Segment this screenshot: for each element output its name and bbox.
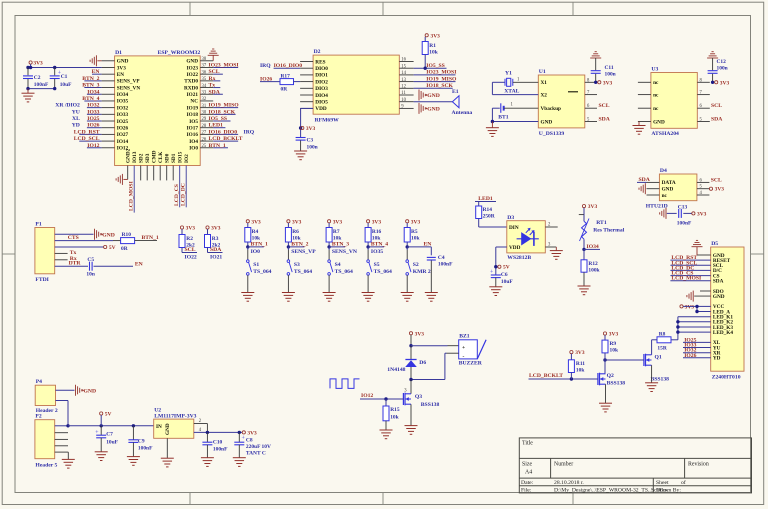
resistor R7 10k — [326, 228, 342, 249]
svg-text:38: 38 — [202, 57, 207, 62]
svg-text:IO35: IO35 — [371, 249, 383, 255]
svg-text:33: 33 — [202, 90, 207, 95]
svg-text:100nF: 100nF — [34, 82, 49, 88]
svg-text:LCD_SCL: LCD_SCL — [74, 136, 100, 142]
ground bar at D1 GND pin 1 — [90, 55, 102, 66]
svg-text:3V3: 3V3 — [306, 126, 316, 132]
svg-text:28: 28 — [202, 124, 207, 129]
resistor R11 10k — [568, 360, 585, 379]
resistor R15 10k — [383, 399, 400, 430]
power port 3V3 above R3 — [206, 226, 221, 235]
svg-text:E1: E1 — [452, 89, 459, 95]
svg-text:0R: 0R — [281, 87, 288, 93]
power port 3V3 at D4 pin 5 — [709, 187, 724, 193]
resistor R5 10k — [404, 228, 420, 249]
capacitor C3 100n — [296, 138, 318, 151]
svg-text:XL: XL — [72, 116, 80, 122]
ground below S3 — [282, 275, 295, 301]
svg-text:TS_064: TS_064 — [335, 269, 353, 275]
wire D3 VDD to 5V — [494, 247, 507, 275]
net label BTN_1 IO0 — [248, 242, 268, 255]
svg-text:Header 5: Header 5 — [35, 462, 57, 468]
svg-text:SCL: SCL — [599, 103, 610, 109]
svg-text:GND: GND — [541, 119, 553, 125]
svg-text:100n: 100n — [605, 72, 616, 78]
svg-text:C6: C6 — [501, 272, 508, 278]
capacitor C9 100nF — [128, 426, 153, 457]
svg-text:3V3: 3V3 — [333, 219, 343, 225]
svg-text:TS_064: TS_064 — [294, 269, 312, 275]
svg-text:IO14: IO14 — [117, 139, 129, 145]
svg-text:ATSHA204: ATSHA204 — [651, 131, 679, 137]
ground bar at D5 GND pin8 — [687, 291, 711, 302]
svg-text:IO19_MISO: IO19_MISO — [426, 76, 457, 82]
svg-text:SENS_VP: SENS_VP — [291, 249, 316, 255]
svg-text:RT1: RT1 — [596, 220, 607, 226]
ground below C3 — [294, 151, 307, 160]
svg-text:DTR: DTR — [69, 261, 82, 267]
svg-text:IO23_MOSI: IO23_MOSI — [426, 70, 456, 76]
resistor R10 0R — [121, 232, 157, 252]
ground bar at D2 pin 9 — [419, 103, 440, 114]
svg-text:VDD: VDD — [315, 106, 327, 112]
svg-text:U_DS1339: U_DS1339 — [539, 131, 565, 137]
D1 left pins — [102, 59, 141, 152]
5V rail wire — [68, 424, 154, 427]
power port 3V3 above R4 — [246, 219, 261, 227]
svg-text:ESP_WROOM32: ESP_WROOM32 — [158, 50, 201, 56]
svg-text:11: 11 — [401, 91, 406, 96]
svg-text:GND: GND — [427, 106, 440, 112]
svg-text:IO16_DIO0: IO16_DIO0 — [274, 63, 303, 69]
LED arrow symbol inside D3 — [517, 228, 539, 246]
svg-text:IO5_SS: IO5_SS — [209, 116, 228, 122]
svg-text:S4: S4 — [335, 262, 341, 268]
svg-text:3V3: 3V3 — [411, 219, 421, 225]
svg-text:SCL: SCL — [711, 103, 722, 109]
svg-text:3V3: 3V3 — [33, 61, 43, 67]
svg-text:SDA: SDA — [639, 177, 651, 183]
svg-text:SCL: SCL — [711, 177, 722, 183]
svg-text:EN: EN — [92, 69, 100, 75]
wire capacitor bottoms — [26, 87, 56, 90]
svg-text:BTN_4: BTN_4 — [371, 242, 388, 248]
IC U1 U_DS1339 body — [538, 69, 585, 137]
svg-text:5V: 5V — [105, 412, 112, 418]
svg-text:LCD_CS: LCD_CS — [174, 184, 180, 206]
power port 3V3 at U1 pin 8 — [594, 80, 613, 86]
net label LCD_BCKLT wire to Q2 gate — [529, 373, 598, 381]
svg-text:A4: A4 — [525, 470, 532, 476]
svg-text:SENS_VN: SENS_VN — [117, 85, 141, 91]
svg-text:220uF 10V: 220uF 10V — [246, 444, 271, 450]
svg-text:IO22: IO22 — [187, 72, 199, 78]
svg-text:S1: S1 — [253, 262, 259, 268]
svg-text:GND: GND — [653, 119, 665, 125]
power port 3V3 above R2 — [180, 226, 195, 235]
svg-text:DIO3: DIO3 — [315, 86, 328, 92]
power port 3V3 at D2 VDD — [301, 126, 316, 132]
svg-text:SENS_VP: SENS_VP — [117, 79, 141, 85]
svg-text:GND: GND — [84, 389, 97, 395]
svg-text:10n: 10n — [86, 271, 94, 277]
svg-text:R10: R10 — [122, 232, 132, 238]
net labels on D1 right pins — [209, 62, 255, 148]
wire P2 pin1 to 5V rail — [55, 424, 70, 427]
ground below S2 — [401, 275, 414, 301]
svg-text:Vbackup: Vbackup — [541, 106, 562, 112]
svg-text:CLK: CLK — [158, 151, 164, 163]
transistor Q2 BSS138 — [594, 373, 625, 387]
ground below C10 — [201, 458, 214, 467]
svg-text:NC: NC — [190, 99, 198, 105]
ground below S4 — [323, 275, 336, 301]
net label BTN_4 IO35 — [368, 242, 388, 255]
capacitor C8 220uF 10V TANT C polarized — [234, 432, 271, 457]
svg-text:LCD_MOSI: LCD_MOSI — [129, 181, 135, 211]
svg-text:P2: P2 — [35, 414, 41, 420]
net label IRQ IO16_DIO0 on D2 DIO0 — [260, 63, 302, 69]
svg-text:R15: R15 — [390, 407, 400, 413]
svg-text:BTN_1: BTN_1 — [209, 143, 226, 149]
svg-text:Title: Title — [522, 441, 533, 447]
svg-text:Tx: Tx — [70, 250, 77, 256]
ground below Q3 — [405, 404, 418, 434]
svg-text:XR /DIO2: XR /DIO2 — [55, 103, 80, 109]
svg-text:IO17: IO17 — [187, 126, 199, 132]
svg-text:IO26: IO26 — [684, 353, 696, 359]
svg-text:DIN: DIN — [509, 225, 519, 231]
svg-text:YU: YU — [72, 109, 80, 115]
ground below S5 — [362, 275, 375, 301]
svg-text:+: + — [462, 345, 465, 351]
IC D1 ESP_WROOM32 body — [115, 50, 201, 166]
svg-text:BTN_1: BTN_1 — [251, 242, 268, 248]
resistor R8 15R — [652, 331, 671, 351]
svg-text:SCL: SCL — [209, 69, 220, 75]
svg-text:GND: GND — [713, 294, 725, 300]
D3 right pins 2 and 3 — [545, 223, 557, 248]
svg-text:3V3: 3V3 — [603, 80, 613, 86]
power port 3V3 at C1 C2 — [29, 61, 43, 68]
net label BTN_1 at R10 — [142, 235, 159, 241]
svg-text:3V3: 3V3 — [685, 304, 695, 310]
svg-text:GND: GND — [102, 232, 115, 238]
connector P1 FTDI body — [35, 221, 55, 283]
crystal Y1 XTAL — [492, 70, 538, 94]
svg-text:10k: 10k — [372, 236, 381, 242]
svg-text:3V3: 3V3 — [715, 187, 725, 193]
ground at U3 GND pin — [633, 122, 646, 135]
power port 3V3 at D5 VCC LED_A — [680, 304, 711, 313]
power port 3V3 above R9 — [603, 332, 618, 341]
svg-text:SDA: SDA — [209, 89, 221, 95]
svg-text:Q3: Q3 — [415, 394, 422, 400]
rotated net labels under D1 bottom pins — [129, 181, 187, 211]
svg-text:KMR 2: KMR 2 — [413, 269, 431, 275]
resistor R6 10k — [285, 228, 301, 249]
svg-text:IO34: IO34 — [587, 244, 599, 250]
ground bar above D5 GND pin1 — [692, 240, 711, 255]
svg-text:FTDI: FTDI — [35, 277, 48, 283]
svg-text:YD: YD — [713, 356, 721, 362]
svg-text:R7: R7 — [333, 229, 340, 235]
svg-text:LED1: LED1 — [209, 123, 224, 129]
net label Tx on P1 pin4 — [55, 250, 77, 256]
svg-text:3V3: 3V3 — [588, 204, 598, 210]
svg-text:EN: EN — [117, 72, 125, 78]
resistor R12 100k — [581, 249, 601, 285]
svg-text:27: 27 — [202, 131, 207, 136]
svg-text:IO26: IO26 — [260, 76, 272, 82]
svg-text:Number: Number — [554, 462, 573, 468]
connector P4 Header 2 — [35, 379, 58, 414]
net label SDA IO21 — [208, 247, 223, 260]
svg-text:SDA: SDA — [599, 117, 611, 123]
svg-text:XTAL: XTAL — [504, 88, 519, 94]
svg-text:D2: D2 — [314, 49, 321, 55]
svg-text:SDA: SDA — [711, 117, 723, 123]
svg-text:3V3: 3V3 — [247, 430, 257, 436]
svg-text:IO33: IO33 — [87, 109, 99, 115]
svg-text:SD0: SD0 — [164, 153, 170, 163]
svg-text:26: 26 — [202, 137, 207, 142]
svg-text:DIO2: DIO2 — [315, 79, 328, 85]
svg-text:5V: 5V — [109, 245, 116, 251]
svg-text:IO34: IO34 — [117, 92, 129, 98]
thermistor RT1 Res Thermal — [579, 215, 625, 250]
svg-text:BSS138: BSS138 — [607, 380, 626, 386]
svg-text:3V3: 3V3 — [609, 332, 619, 338]
svg-text:3V3: 3V3 — [720, 80, 730, 86]
svg-text:C7: C7 — [106, 431, 113, 437]
svg-text:HTU21D: HTU21D — [646, 204, 668, 210]
svg-text:10k: 10k — [411, 236, 420, 242]
svg-text:CMD: CMD — [151, 150, 157, 163]
svg-text:P1: P1 — [35, 221, 41, 227]
svg-text:U3: U3 — [651, 67, 658, 73]
svg-text:DIO1: DIO1 — [315, 73, 328, 79]
svg-text:IO0: IO0 — [189, 146, 198, 152]
svg-text:D5: D5 — [711, 241, 718, 247]
svg-text:SD1: SD1 — [171, 153, 177, 163]
svg-text:10uF: 10uF — [501, 279, 513, 285]
svg-text:14: 14 — [401, 71, 406, 76]
svg-text:S3: S3 — [294, 262, 300, 268]
svg-text:D1: D1 — [115, 50, 122, 56]
svg-text:GND2: GND2 — [125, 148, 131, 163]
ground below Q2 — [599, 384, 612, 412]
D4 right pins with numbers — [697, 177, 722, 196]
D4 left pins — [647, 180, 676, 199]
svg-text:IN: IN — [156, 424, 162, 430]
svg-text:3V3: 3V3 — [186, 226, 196, 232]
svg-text:IO5_SS: IO5_SS — [426, 63, 445, 69]
net labels IO25 IO33 IO32 IO26 on D5 XL YU XR YD — [683, 337, 711, 358]
power port 3V3 above R5 — [406, 219, 421, 227]
svg-text:WS2812B: WS2812B — [507, 255, 531, 261]
svg-text:10k: 10k — [429, 50, 438, 56]
resistor R1 10k — [422, 42, 439, 69]
svg-text:BTN_2: BTN_2 — [82, 76, 99, 82]
svg-text:TS_064: TS_064 — [374, 269, 392, 275]
IC D3 WS2812B body — [507, 215, 546, 261]
svg-text:Res Thermal: Res Thermal — [593, 228, 625, 234]
svg-text:LCD_BCKLT: LCD_BCKLT — [209, 136, 243, 142]
svg-text:BT1: BT1 — [498, 115, 509, 121]
svg-text:RFM69W: RFM69W — [315, 118, 339, 124]
svg-text:Q2: Q2 — [607, 373, 614, 379]
resistor R17 0R — [280, 74, 300, 93]
resistor R9 10k — [602, 340, 619, 360]
svg-text:TXD0: TXD0 — [184, 79, 198, 85]
D2 left pins — [300, 59, 328, 112]
svg-text:IO21: IO21 — [187, 92, 199, 98]
capacitor C7 10uF polarized — [95, 426, 118, 452]
svg-text:IO18: IO18 — [187, 112, 199, 118]
svg-text:GND: GND — [117, 59, 129, 65]
wire battery to U1 GND and ground — [491, 108, 539, 123]
svg-text:CTS: CTS — [68, 235, 79, 241]
svg-text:TANT C: TANT C — [246, 451, 266, 457]
svg-text:R4: R4 — [252, 229, 259, 235]
svg-text:EN: EN — [424, 242, 432, 248]
svg-text:YD: YD — [72, 123, 80, 129]
svg-text:D4: D4 — [660, 168, 667, 174]
switch S4 TS_064 — [328, 247, 353, 275]
svg-text:C12: C12 — [717, 59, 727, 65]
svg-text:IO27: IO27 — [117, 132, 129, 138]
IC D4 HTU21D body — [646, 168, 697, 210]
wire crystal to U1 X2 — [492, 82, 538, 94]
svg-text:3V3: 3V3 — [211, 226, 221, 232]
svg-text:37: 37 — [202, 64, 207, 69]
svg-text:10: 10 — [401, 98, 406, 103]
svg-text:S5: S5 — [374, 262, 380, 268]
ground below R15 — [380, 430, 393, 439]
title block — [519, 438, 751, 494]
svg-text:10k: 10k — [576, 367, 585, 373]
svg-text:C1: C1 — [61, 74, 68, 80]
capacitor C10 100nF — [202, 432, 228, 457]
svg-text:C3: C3 — [307, 138, 314, 144]
resistor R2 2k2 — [179, 235, 195, 253]
switch S3 TS_064 — [287, 247, 312, 275]
net label Rx on P1 pin5 — [55, 256, 77, 262]
regulator U2 LM1117IMP-3V3 body — [154, 408, 197, 439]
ground below P2 pin5 — [62, 459, 75, 468]
U2 pin 2 stub — [194, 419, 208, 432]
transistor Q3 BSS138 — [400, 378, 440, 408]
net label SDA on D4 DATA — [637, 177, 651, 183]
svg-text:IO32: IO32 — [117, 105, 129, 111]
svg-text:LCD_DC: LCD_DC — [181, 183, 187, 206]
P2 pins 2-4 stubs — [55, 433, 68, 446]
svg-text:15R: 15R — [657, 346, 666, 352]
svg-text:R16: R16 — [372, 229, 382, 235]
svg-text:13: 13 — [401, 78, 406, 83]
svg-text:IO19: IO19 — [187, 105, 199, 111]
svg-text:1N4148: 1N4148 — [387, 367, 405, 373]
svg-text:SCL: SCL — [185, 247, 196, 253]
power port 3V3 above R7 — [328, 219, 343, 227]
svg-text:IO23: IO23 — [187, 65, 199, 71]
svg-text:36: 36 — [202, 70, 207, 75]
ground below C8 — [233, 458, 246, 467]
svg-text:25: 25 — [202, 144, 207, 149]
net labels LCD_RST LCD_SCL LCD_DC LCD_CS LCD_MOSI on D5 — [670, 255, 710, 282]
svg-text:LED1: LED1 — [478, 196, 493, 202]
power port 3V3 above RT1 — [582, 204, 597, 221]
svg-text:DIO0: DIO0 — [315, 66, 328, 72]
wires D5 LED_K1-K4 bus — [671, 317, 711, 340]
U2 pin 4 output wire to 3V3 — [194, 428, 242, 434]
IC D2 RFM69W body — [313, 49, 399, 124]
svg-text:EN: EN — [135, 262, 143, 268]
svg-text:5V: 5V — [503, 265, 510, 271]
svg-text:IO19_MISO: IO19_MISO — [209, 103, 240, 109]
svg-text:3V3: 3V3 — [575, 350, 585, 356]
svg-text:LCD_RST: LCD_RST — [74, 129, 100, 135]
connector P2 Header 5 — [35, 414, 58, 469]
svg-text:P4: P4 — [36, 379, 42, 385]
switch S1 TS_064 — [247, 247, 272, 275]
svg-text:LCD_BCKLT: LCD_BCKLT — [529, 373, 563, 379]
switch S5 TS_064 — [367, 247, 392, 275]
svg-text:C8: C8 — [246, 437, 253, 443]
wire buzzer minus to Q3 drain node — [411, 353, 459, 379]
svg-text:IO16: IO16 — [187, 132, 199, 138]
svg-text:C2: C2 — [34, 75, 41, 81]
svg-text:nc: nc — [653, 92, 659, 98]
svg-text:10k: 10k — [292, 236, 301, 242]
svg-text:30: 30 — [202, 111, 207, 116]
svg-text:SENS_VN: SENS_VN — [332, 249, 357, 255]
resistor R16 10k — [365, 228, 381, 249]
wire 3V3 bus to D1 pin 3V3 — [26, 66, 101, 69]
svg-text:IO12: IO12 — [361, 393, 373, 399]
power port 3V3 above R11 — [570, 350, 585, 360]
ground below R12 — [578, 286, 591, 295]
svg-text:10k: 10k — [333, 236, 342, 242]
svg-text:IRQ: IRQ — [244, 129, 255, 135]
ground below C6 — [489, 287, 502, 296]
svg-text:Revision: Revision — [688, 462, 709, 468]
svg-text:15: 15 — [401, 64, 406, 69]
svg-text:R5: R5 — [411, 229, 418, 235]
svg-text:-: - — [463, 353, 465, 359]
svg-text:16: 16 — [401, 58, 406, 63]
svg-text:D6: D6 — [419, 360, 426, 366]
svg-text:IO23_MOSI: IO23_MOSI — [209, 62, 239, 68]
svg-text:Size: Size — [522, 462, 532, 468]
svg-text:nc: nc — [662, 193, 668, 199]
D1 bottom pins — [125, 148, 190, 212]
svg-text:Sheet: Sheet — [656, 480, 669, 486]
IC D5 Z240HT010 body — [711, 241, 744, 380]
svg-text:10k: 10k — [252, 236, 261, 242]
capacitor C11 100n with ground bar — [590, 52, 615, 83]
ground below C9 — [127, 457, 140, 466]
resistor R3 2k2 — [205, 235, 221, 253]
svg-text:Drawn By:: Drawn By: — [656, 488, 681, 494]
svg-text:IO32: IO32 — [87, 103, 99, 109]
svg-text:IO15: IO15 — [177, 151, 183, 163]
svg-text:100nF: 100nF — [213, 446, 228, 452]
capacitor C12 100n with ground bar — [707, 52, 728, 83]
antenna E1 — [414, 89, 473, 116]
net label IO26 on D2 DIO2 — [260, 76, 280, 82]
